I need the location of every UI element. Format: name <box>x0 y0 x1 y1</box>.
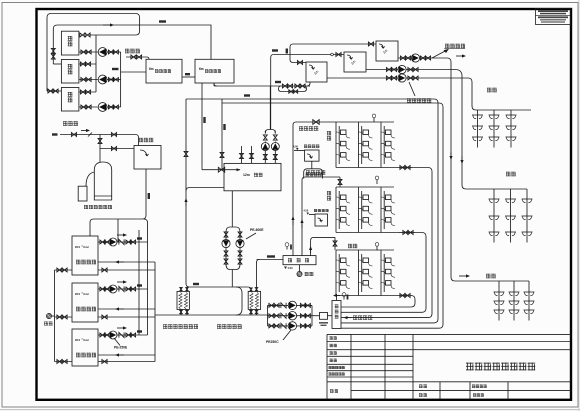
heat pump HP2 <box>61 60 79 84</box>
tank 12m3 <box>224 163 281 190</box>
riser group bldg1 <box>335 122 337 168</box>
flow arrow inner loop <box>103 24 111 26</box>
riser group bldg2 <box>335 187 337 233</box>
dhw pump row3 <box>327 77 468 79</box>
dhw pump row1 <box>398 57 447 59</box>
svg-text:28.0: 28.0 <box>75 245 81 249</box>
makeup water box <box>311 161 313 169</box>
dirt sep label <box>319 322 328 324</box>
vent group1 <box>373 118 375 123</box>
main return drop 443 <box>341 107 443 328</box>
dhw label <box>445 43 449 46</box>
main pipe H99 <box>186 98 434 100</box>
PE600E branch A <box>225 231 227 265</box>
header corner <box>144 219 148 242</box>
pump header vertical <box>120 52 122 107</box>
boiler 2 outlet <box>98 288 148 290</box>
collector gauge <box>343 297 345 300</box>
svg-text:PE-250E: PE-250E <box>114 346 128 350</box>
boiler 1 return <box>98 261 155 263</box>
water collector <box>332 301 341 329</box>
svg-text:Kcal: Kcal <box>84 339 89 342</box>
boiler 3 return <box>98 354 155 356</box>
distributor gauge <box>286 247 288 250</box>
softener feed valve <box>98 138 102 143</box>
insulated tank 6m3 A <box>146 59 182 83</box>
dhw top line44 <box>293 43 376 45</box>
distributor box <box>283 256 316 265</box>
HX1 stubs <box>180 287 182 291</box>
dorm feed header <box>476 109 531 111</box>
distributor drain <box>299 265 301 272</box>
dhw line54 <box>274 54 344 56</box>
boiler supply manifold DN <box>190 286 249 288</box>
supply label 1 <box>299 125 303 128</box>
bypass line86 <box>214 85 310 87</box>
title row labels <box>330 335 333 338</box>
pump row HP2 <box>79 79 98 81</box>
elevation mark <box>284 267 287 270</box>
svg-text:4: 4 <box>82 245 83 248</box>
valves on inner loop drop <box>51 48 55 53</box>
header pipe HP tops <box>95 35 97 92</box>
svg-text:PE-600E: PE-600E <box>250 228 264 232</box>
vertical pump V1 <box>261 143 269 151</box>
dhw riser A <box>447 58 455 281</box>
dhw riser B arrow <box>461 156 463 161</box>
tap water main <box>60 134 136 136</box>
svg-text:Kcal: Kcal <box>84 246 89 249</box>
vent group2 <box>376 180 378 185</box>
dhw tank S2 <box>344 52 366 72</box>
supply header bldg1 <box>296 121 336 123</box>
tap water valve line <box>126 56 147 58</box>
svg-text:4: 4 <box>82 338 83 341</box>
tank inlet line <box>201 167 203 170</box>
boiler 3 outlet <box>98 334 148 336</box>
title block grid <box>327 333 571 335</box>
outer loop pipe <box>47 14 140 92</box>
manifold to HX2 corner <box>248 287 251 291</box>
dhw riser C <box>468 78 476 110</box>
circ pump row 2 <box>268 315 313 317</box>
supply label 2 <box>306 169 310 172</box>
return riser v186 <box>185 99 187 284</box>
group2 return pipe <box>341 233 426 313</box>
tap water label top <box>125 48 129 51</box>
supply header bldg2 <box>305 176 340 178</box>
return label arrow <box>347 317 352 319</box>
pipe DN from tank B <box>201 83 203 167</box>
group2 return exit <box>399 232 415 234</box>
circ pump row 1 <box>268 304 313 306</box>
feed v270 <box>270 58 272 130</box>
water softener vessel <box>94 162 111 200</box>
main return drop 438 <box>341 103 438 323</box>
boiler left header <box>54 270 56 362</box>
canteen feed header <box>455 280 529 282</box>
boiler return header <box>154 262 156 362</box>
main pipe H103 <box>222 102 439 104</box>
valve pair HP2 top <box>80 62 85 66</box>
manifold loop down <box>236 287 242 315</box>
PE600E top manifold <box>226 227 240 232</box>
supply header bldg3 <box>314 236 335 238</box>
supply riser 3 <box>310 240 312 255</box>
group3 return exit <box>399 295 407 297</box>
soft water elbow <box>90 216 146 237</box>
riser group bldg3 <box>335 250 337 296</box>
dhw pump row2 <box>366 69 455 71</box>
circ pump row 3 <box>268 325 313 327</box>
tank connector <box>182 76 195 78</box>
line86 to S1 <box>307 82 310 86</box>
bldg1 label <box>327 130 331 133</box>
group1 return pipe <box>341 168 432 318</box>
PE600E bottom manifold <box>226 264 240 270</box>
soft water tank <box>134 146 161 170</box>
svg-text:4.50: 4.50 <box>293 145 298 148</box>
vent group3 <box>376 246 378 251</box>
valve pair HP3 left <box>48 89 53 93</box>
svg-text:28.0: 28.0 <box>75 338 81 342</box>
group3 return pipe <box>341 296 415 308</box>
boiler 1 outlet <box>98 241 148 243</box>
HX2 stubs <box>250 290 252 291</box>
PE600E down pipe <box>231 270 233 288</box>
vertical pump V2 <box>271 143 279 151</box>
circ pump right manifold <box>311 305 313 326</box>
DN125 label <box>267 255 275 257</box>
boiler 2 return <box>98 308 155 310</box>
boiler 3 box <box>72 329 98 366</box>
dhw tank S1 <box>306 62 327 82</box>
south feed header <box>466 188 527 190</box>
branch to tank bottom <box>186 188 224 192</box>
drop v118 <box>117 219 119 242</box>
drawing title <box>466 362 474 365</box>
dhw riser B <box>455 70 466 190</box>
heat exchanger HX2 <box>248 291 260 309</box>
insulated tank 6m3 B <box>195 59 234 83</box>
boiler 1 box <box>72 236 98 275</box>
inner loop pipe <box>53 25 211 64</box>
return main <box>155 314 268 316</box>
svg-text:4.50: 4.50 <box>304 210 309 213</box>
canteen comb group <box>498 281 500 321</box>
return riser v222 <box>221 99 223 170</box>
svg-text:12m: 12m <box>243 173 250 177</box>
boiler supply header <box>147 242 149 335</box>
group1 return exit <box>399 167 412 169</box>
boiler drain circle <box>49 315 55 317</box>
page edge shadow <box>0 409 580 411</box>
dhw arrow <box>432 50 447 58</box>
svg-text:4.50: 4.50 <box>288 266 294 270</box>
collector top stub <box>336 296 338 301</box>
drop into soft tank <box>136 135 139 146</box>
info box top-right <box>536 9 571 25</box>
regulating tank <box>305 150 319 161</box>
boiler supply header 2 <box>138 230 140 335</box>
supply riser 1 <box>292 125 294 256</box>
svg-text:PE250C: PE250C <box>266 340 279 344</box>
wire HP2 left inlet <box>53 63 61 65</box>
tank stub lines <box>241 146 243 163</box>
svg-text:28.0: 28.0 <box>75 292 81 296</box>
bypass loop <box>279 86 307 92</box>
valve pair HP1 top <box>80 33 85 37</box>
bldg2 label <box>327 190 331 193</box>
pump pair collar <box>265 130 275 134</box>
pump row HP3 <box>79 106 98 108</box>
softener label <box>84 204 88 207</box>
tank2 drop <box>213 83 215 86</box>
dhw tank S3 <box>376 41 398 61</box>
boiler 2 box <box>72 283 98 322</box>
heat pump HP1 <box>61 31 79 55</box>
softener to tank line <box>100 148 134 150</box>
HX1 label <box>163 323 167 326</box>
svg-text:Kcal: Kcal <box>84 293 89 296</box>
svg-text:6m: 6m <box>199 67 204 71</box>
boiler 1 left valves <box>55 269 73 271</box>
circ pump left manifold <box>267 305 269 326</box>
bldg3 label <box>348 243 352 246</box>
heat pump HP3 <box>61 88 79 112</box>
dorm comb group <box>477 110 479 148</box>
pump row HP1 <box>79 51 98 53</box>
elevation 4.50 <box>294 150 305 152</box>
svg-text:6m: 6m <box>149 67 154 71</box>
valve pair HP3 top <box>80 90 85 94</box>
boiler 3 blowdown <box>98 361 155 363</box>
wire HP3 top <box>79 91 96 93</box>
boiler 1 blowdown <box>98 269 155 271</box>
soft tank label <box>139 137 143 140</box>
distributor feed line <box>257 259 284 261</box>
PE600E branch B <box>239 231 241 265</box>
dirt separator <box>312 315 320 317</box>
stabilizer pump label <box>407 97 411 100</box>
wire HP2 top <box>79 63 96 65</box>
dhw riser A arrow <box>450 152 452 157</box>
south comb group <box>493 189 495 243</box>
wire header to tank1 <box>121 71 146 73</box>
soft water downpipe <box>145 169 147 216</box>
boiler 3 left valves <box>55 361 73 363</box>
salt tank <box>78 186 87 201</box>
HX2 label <box>217 323 221 326</box>
boiler 2 blowdown <box>98 316 155 318</box>
dorm label <box>487 87 491 90</box>
south label <box>506 171 510 174</box>
pipe tank bottom <box>231 191 233 227</box>
regulating tank label <box>304 144 307 147</box>
scale date labels <box>419 384 422 387</box>
heat exchanger HX1 <box>177 291 189 309</box>
canteen label <box>486 273 490 276</box>
tap water label left <box>63 120 67 123</box>
supply riser 2 <box>301 180 303 256</box>
regulating tank 2 <box>315 214 328 226</box>
svg-text:4: 4 <box>82 292 83 295</box>
boiler 2 left valves <box>55 316 73 318</box>
